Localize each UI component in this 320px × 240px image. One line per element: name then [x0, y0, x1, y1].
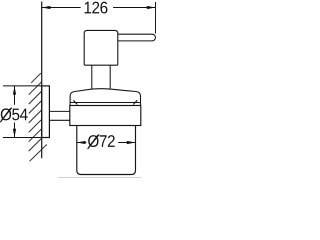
- pump head: [84, 30, 118, 65]
- glass container: [77, 126, 136, 175]
- holder ring: [70, 106, 141, 126]
- cap: [70, 89, 140, 106]
- dimension D54 arrow up: [13, 86, 16, 95]
- pump spout: [118, 34, 156, 41]
- pump neck: [92, 65, 110, 88]
- dimension D72 arrow left: [77, 141, 86, 144]
- dimension D72 line: [77, 142, 136, 144]
- dimension 126 arrow left: [42, 6, 51, 9]
- wall hatching: [29, 73, 47, 161]
- dimension 126 arrow right: [147, 6, 156, 9]
- dimension 126 label: [85, 2, 108, 14]
- wall line: [41, 2, 43, 159]
- dimension 126 extension line right: [155, 2, 157, 34]
- holder arm: [49, 111, 70, 120]
- dimension D54 label: [0, 108, 27, 123]
- dimension D72 label: [88, 134, 115, 149]
- dimension D54 extension lines: [3, 86, 42, 138]
- mounting plate: [42, 86, 50, 138]
- dimension D54 arrow down: [13, 129, 16, 138]
- dimension D54 line: [14, 86, 16, 138]
- dimension 126 line: [42, 7, 156, 9]
- dimension D72 arrow right: [127, 141, 136, 144]
- ground shadow line: [58, 177, 141, 179]
